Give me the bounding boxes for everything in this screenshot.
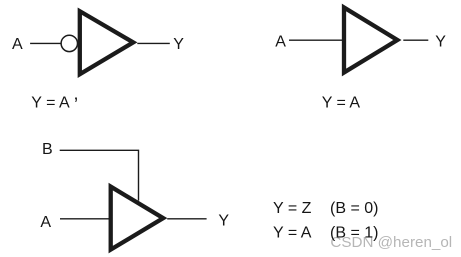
svg-text:A: A <box>275 34 286 51</box>
wire A to buffer <box>289 39 343 41</box>
inverter input bubble <box>61 35 77 51</box>
svg-text:Y: Y <box>435 34 446 51</box>
svg-text:B: B <box>42 141 53 158</box>
svg-text:Y = A: Y = A <box>322 95 361 112</box>
wire A to tristate <box>60 218 110 220</box>
svg-text:A: A <box>12 36 23 53</box>
wire buffer output <box>403 39 428 41</box>
wire inverter output <box>137 42 170 44</box>
svg-text:(B = 0): (B = 0) <box>330 200 378 217</box>
buffer U2 triangle <box>344 8 397 73</box>
wire A to bubble <box>30 42 61 44</box>
svg-text:Y: Y <box>173 36 184 53</box>
svg-text:Y = A: Y = A <box>273 224 312 241</box>
inverter U1 triangle <box>80 11 133 74</box>
tristate buffer U3 triangle <box>111 187 164 250</box>
wire tristate output <box>167 218 206 220</box>
svg-text:Y: Y <box>218 212 229 229</box>
wire B enable to tristate top <box>60 150 139 200</box>
svg-text:(B = 1): (B = 1) <box>330 224 378 241</box>
svg-text:Y = Z: Y = Z <box>273 200 312 217</box>
svg-text:A: A <box>40 214 51 231</box>
